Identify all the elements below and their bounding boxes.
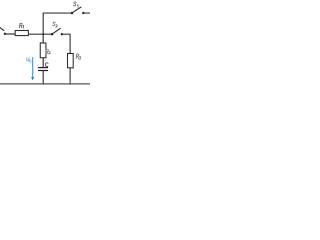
capacitor C bottom plate bbox=[38, 70, 48, 71]
switch S2 left contact dot bbox=[51, 33, 53, 35]
wire top right (S1 to edge) bbox=[83, 12, 90, 14]
label C bbox=[45, 63, 48, 67]
wire R1 to junction and S2 bbox=[29, 33, 53, 35]
capacitor C top plate bbox=[38, 67, 48, 68]
switch S1 right contact dot bbox=[82, 12, 84, 14]
label R2 bbox=[46, 49, 51, 54]
switch S2 blade bbox=[53, 29, 61, 34]
wire top horizontal (node top to S1) bbox=[43, 12, 72, 14]
wire R2 to capacitor bbox=[42, 58, 44, 67]
voltage arrow uC (blue) bbox=[32, 58, 34, 78]
label uC (blue) bbox=[27, 58, 32, 62]
wire vertical main node (top corner down to R2) bbox=[42, 13, 44, 43]
label S1 bbox=[73, 2, 78, 7]
switch S1 blade bbox=[73, 7, 82, 13]
wire bottom rail bbox=[0, 83, 90, 85]
wire left (S3 to R1) bbox=[5, 33, 15, 35]
wire S2 to right corner down to R3 bbox=[62, 34, 70, 53]
resistor R1 bbox=[15, 31, 28, 36]
wire R3 to bottom rail bbox=[69, 68, 71, 84]
switch S2 right contact dot bbox=[61, 33, 63, 35]
resistor R3 bbox=[68, 54, 74, 68]
junction node A bbox=[42, 33, 44, 35]
switch S3 blade (cut at left edge) bbox=[0, 27, 4, 30]
label R3 bbox=[76, 54, 80, 59]
switch S1 left contact dot bbox=[71, 12, 73, 14]
label R1 bbox=[19, 23, 23, 28]
switch S3 contact dot bbox=[4, 33, 6, 35]
resistor R2 bbox=[40, 43, 46, 58]
label S2 bbox=[53, 22, 58, 27]
wire capacitor to bottom rail bbox=[42, 71, 44, 84]
